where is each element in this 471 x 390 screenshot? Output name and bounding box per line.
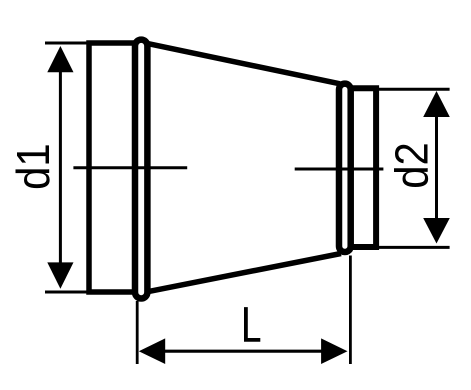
label L bbox=[244, 307, 260, 342]
dimension L right arrowhead bbox=[321, 338, 347, 364]
dimension L right extension line bbox=[349, 256, 352, 365]
dimension L left extension line bbox=[136, 301, 139, 364]
dimension d1 bottom extension line bbox=[45, 291, 140, 294]
svg-text:d1: d1 bbox=[8, 143, 59, 190]
right centerline tick bbox=[295, 168, 384, 171]
dimension d2 bottom extension line bbox=[352, 246, 450, 249]
left rolled bead bbox=[135, 40, 147, 299]
right flange outline bbox=[350, 88, 376, 247]
dimension d2 arrow line bbox=[435, 104, 438, 232]
dimension d2 top extension line bbox=[352, 88, 450, 91]
left flange outline bbox=[89, 43, 135, 292]
dimension d1 arrow line bbox=[59, 58, 62, 277]
dimension d1 top arrowhead bbox=[47, 46, 73, 72]
dimension L left arrowhead bbox=[139, 338, 165, 364]
cone bottom outline bbox=[147, 254, 341, 292]
dimension d1 bottom arrowhead bbox=[47, 262, 73, 288]
dimension d2 bottom arrowhead bbox=[423, 218, 450, 244]
dimension L arrow line bbox=[152, 350, 335, 353]
right rolled bead bbox=[339, 84, 351, 252]
left centerline tick bbox=[73, 166, 187, 169]
cone top outline bbox=[146, 43, 340, 84]
dimension d2 top arrowhead bbox=[423, 91, 450, 117]
svg-text:d2: d2 bbox=[387, 142, 438, 189]
dimension d1 top extension line bbox=[45, 42, 140, 45]
